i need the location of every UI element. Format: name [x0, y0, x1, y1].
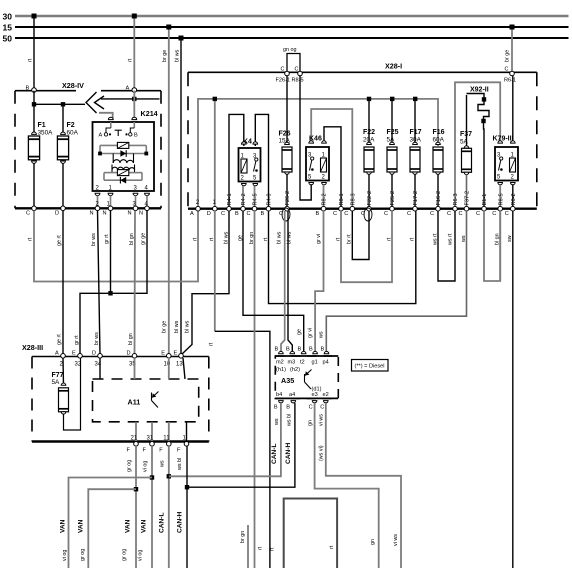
svg-text:B: B — [134, 133, 138, 139]
X28-III below labels — [127, 458, 184, 472]
svg-text:vi og: vi og — [62, 550, 68, 561]
svg-text:15: 15 — [3, 23, 13, 33]
svg-text:C: C — [221, 211, 225, 217]
fuse F26 15A — [279, 76, 293, 206]
svg-text:C: C — [430, 211, 434, 217]
fuse F1 350A — [28, 122, 53, 206]
extra gray wire bottom — [247, 525, 249, 568]
fuse F77 5A — [52, 358, 81, 430]
svg-text:5A: 5A — [460, 139, 469, 146]
svg-text:F16-2: F16-2 — [436, 191, 442, 206]
resistor row1 — [100, 144, 117, 146]
wire br gn R4-5 down — [255, 211, 264, 568]
svg-text:gn og: gn og — [283, 47, 297, 53]
X28-III bottom terminals — [127, 436, 189, 454]
resistor row4 — [104, 172, 117, 174]
svg-text:bl ws: bl ws — [276, 231, 282, 244]
wire rt from bus30 to X28-IV B — [28, 14, 37, 91]
terminal C R8-3 — [344, 193, 356, 217]
svg-text:R4-5: R4-5 — [253, 193, 259, 205]
wire gn from A35 e3 — [315, 403, 379, 568]
svg-text:gr og: gr og — [127, 460, 133, 472]
svg-text:rt: rt — [208, 342, 214, 346]
svg-text:B: B — [298, 347, 302, 353]
svg-text:A: A — [55, 351, 59, 357]
internal wire arrows to A and K214 — [99, 91, 160, 120]
terminal B top — [26, 86, 37, 93]
bus 50 — [3, 34, 569, 44]
svg-text:F26-1: F26-1 — [276, 78, 291, 84]
svg-text:ws bl: ws bl — [177, 458, 183, 471]
A35 top pins — [275, 347, 329, 366]
jumper R8-1 to F25-2 — [341, 211, 392, 282]
X92-II connector label — [470, 87, 489, 94]
svg-text:bl ws: bl ws — [223, 231, 229, 244]
svg-text:vi ws: vi ws — [393, 534, 399, 546]
svg-text:ws rt: ws rt — [447, 233, 453, 246]
svg-text:X28-III: X28-III — [22, 343, 43, 352]
X28-III upper wire labels — [57, 320, 191, 345]
svg-text:F2: F2 — [67, 122, 75, 129]
svg-text:b4: b4 — [276, 392, 282, 398]
A35 bottom pins — [274, 392, 329, 411]
svg-text:R6-2: R6-2 — [511, 193, 517, 205]
svg-text:C: C — [476, 211, 480, 217]
wire br gn label bottom — [240, 531, 246, 543]
svg-text:B: B — [261, 211, 265, 217]
svg-text:(h2): (h2) — [290, 367, 300, 373]
svg-text:VAN: VAN — [59, 519, 66, 533]
connector X28-IV box — [15, 81, 161, 208]
connector X28-I box — [188, 62, 537, 209]
wire br ws X28-IV N to X28-III D34 — [98, 211, 101, 355]
wire R8-5 from top to K46 pin5 — [300, 76, 311, 200]
svg-text:F: F — [159, 448, 163, 454]
svg-text:B: B — [316, 211, 320, 217]
relay K79-III — [493, 136, 519, 207]
svg-text:C: C — [320, 405, 324, 411]
svg-text:X28-IV: X28-IV — [62, 81, 84, 90]
svg-text:gn: gn — [370, 539, 376, 545]
relay K46 — [306, 136, 329, 207]
fuse F2 60A — [57, 122, 78, 206]
svg-text:B: B — [275, 347, 279, 353]
svg-text:D: D — [55, 211, 59, 217]
svg-text:ge rt: ge rt — [57, 334, 63, 345]
svg-text:ws bl: ws bl — [286, 414, 292, 427]
terminal A 2 — [190, 200, 200, 217]
wire bl ws from bus50 to X28-III E13 — [174, 36, 183, 355]
svg-text:vi ws: vi ws — [318, 414, 324, 426]
svg-text:br ge: br ge — [162, 50, 168, 62]
svg-text:B: B — [274, 405, 278, 411]
svg-text:(ws vi): (ws vi) — [318, 445, 324, 461]
svg-text:CAN-L: CAN-L — [158, 512, 165, 533]
jumper R8-3 to F22-2 — [352, 211, 369, 260]
svg-text:bl ws: bl ws — [286, 231, 292, 244]
svg-text:F25-2: F25-2 — [390, 191, 396, 206]
svg-text:D: D — [127, 351, 131, 357]
wire rt R4-3 to F17-2 — [269, 211, 416, 304]
svg-text:F: F — [177, 448, 181, 454]
svg-text:gr rt: gr rt — [74, 335, 80, 345]
svg-text:m2: m2 — [276, 360, 284, 366]
svg-text:R8-3: R8-3 — [351, 193, 357, 205]
svg-text:R6-1: R6-1 — [504, 78, 516, 84]
terminal B R4-2 — [235, 193, 247, 217]
page arrows symbol — [86, 92, 104, 113]
svg-text:br ge: br ge — [162, 321, 168, 333]
A35 arrow symbol — [304, 374, 306, 382]
terminal C F37-2 — [459, 191, 471, 217]
X28-IV bottom terminals — [26, 206, 149, 217]
svg-text:30: 30 — [3, 12, 13, 22]
svg-text:A: A — [126, 86, 130, 92]
svg-text:B: B — [26, 86, 30, 92]
svg-text:bl ws: bl ws — [174, 49, 180, 62]
wire br ge from bus15 to X28-I R6-1 — [504, 25, 516, 84]
control unit A35 box — [275, 356, 338, 398]
svg-text:B: B — [286, 347, 290, 353]
terminal C F25-2 — [384, 191, 396, 217]
svg-text:CAN-H: CAN-H — [285, 443, 292, 464]
wire ws F37-2 to A35 p4 — [318, 211, 466, 353]
bottom center box — [284, 499, 337, 568]
svg-text:R8-2: R8-2 — [322, 193, 328, 205]
svg-text:p4: p4 — [323, 360, 329, 366]
svg-text:bl ws: bl ws — [184, 320, 190, 333]
relay K214 — [93, 109, 158, 208]
terminal D 1 — [207, 200, 217, 217]
terminal B R4-3 — [261, 193, 273, 217]
control unit A11 dashed box — [93, 379, 199, 422]
wire VAN gr og down — [77, 446, 138, 568]
svg-text:gr vi: gr vi — [316, 234, 322, 244]
svg-text:ge: ge — [297, 329, 303, 335]
svg-text:13: 13 — [176, 362, 183, 368]
wire rt D1 long path down — [208, 211, 275, 568]
svg-text:C: C — [309, 405, 313, 411]
svg-text:34: 34 — [95, 362, 102, 368]
svg-text:F26: F26 — [279, 131, 291, 138]
K46 bridges — [311, 109, 352, 206]
diode row5 — [104, 179, 142, 181]
svg-text:D: D — [92, 351, 96, 357]
svg-text:rt: rt — [258, 546, 264, 550]
svg-text:g1: g1 — [312, 360, 318, 366]
svg-text:R4-3: R4-3 — [267, 193, 273, 205]
svg-text:F37-2: F37-2 — [465, 191, 471, 206]
svg-text:K79-III: K79-III — [493, 136, 514, 143]
svg-text:br gn: br gn — [240, 531, 246, 543]
wire bl ws F26-2 to A35 m2 m3 — [281, 211, 292, 353]
svg-text:rt: rt — [128, 58, 134, 62]
svg-text:gr og: gr og — [122, 549, 128, 561]
switch contacts — [110, 122, 112, 128]
svg-text:R4-1: R4-1 — [227, 193, 233, 205]
A11 arrow symbol — [151, 393, 153, 401]
terminal B R8-2 — [316, 193, 328, 217]
X28-I below-edge wire labels — [192, 231, 513, 246]
svg-text:R6-3: R6-3 — [453, 193, 459, 205]
svg-text:ws: ws — [274, 418, 280, 426]
terminal C F16-2 — [430, 191, 442, 217]
bottom pin bumps — [95, 193, 100, 195]
relay K4 — [239, 139, 261, 207]
svg-text:E: E — [161, 351, 165, 357]
svg-text:R8-5: R8-5 — [292, 78, 304, 84]
svg-text:e3: e3 — [312, 392, 318, 398]
jumper F16-2 to R6-3 — [438, 211, 455, 281]
terminal C R4-5 — [247, 193, 259, 217]
svg-text:bl ws: bl ws — [174, 320, 180, 333]
svg-text:A: A — [190, 211, 194, 217]
wire CAN-H — [176, 403, 295, 568]
svg-text:t2: t2 — [300, 360, 305, 366]
svg-text:br ws: br ws — [94, 332, 100, 345]
svg-text:R6-5: R6-5 — [498, 193, 504, 205]
svg-text:gn: gn — [308, 420, 314, 426]
svg-text:X92-II: X92-II — [470, 87, 489, 94]
svg-text:11: 11 — [163, 436, 170, 442]
X28-IV below-edge wire labels — [27, 233, 146, 246]
X28-III top terminals — [55, 351, 183, 368]
terminal C R6-3 — [447, 193, 459, 217]
svg-text:D: D — [207, 211, 211, 217]
terminal C R8-1 — [333, 193, 345, 217]
fuse F37 5A — [460, 131, 472, 206]
svg-text:F17-2: F17-2 — [413, 191, 419, 206]
svg-text:C: C — [247, 211, 251, 217]
svg-text:C: C — [384, 211, 388, 217]
svg-text:E: E — [72, 351, 76, 357]
terminal C R6-5 — [492, 193, 504, 217]
svg-text:gr ge: gr ge — [140, 233, 146, 245]
svg-text:e2: e2 — [323, 392, 329, 398]
svg-text:bl gn: bl gn — [128, 333, 134, 345]
svg-text:gr rt: gr rt — [104, 234, 110, 244]
terminal C F22-2 — [361, 191, 373, 221]
wire CAN-L — [158, 403, 281, 568]
svg-text:ge rt: ge rt — [56, 235, 62, 246]
svg-text:R4-2: R4-2 — [241, 193, 247, 205]
svg-text:N: N — [103, 211, 107, 217]
svg-text:N: N — [128, 211, 132, 217]
svg-text:R8-1: R8-1 — [339, 193, 345, 205]
svg-text:rt: rt — [329, 545, 335, 549]
wire ge rt X28-IV D to X28-III A2 — [62, 211, 64, 355]
K4 bridges — [229, 114, 269, 206]
svg-text:rt: rt — [28, 58, 34, 62]
svg-text:B1-1: B1-1 — [482, 194, 488, 206]
svg-text:VAN: VAN — [77, 519, 84, 533]
svg-text:5A: 5A — [52, 379, 61, 386]
svg-text:31: 31 — [147, 436, 154, 442]
svg-text:F: F — [127, 448, 131, 454]
svg-text:C: C — [459, 211, 463, 217]
svg-text:A11: A11 — [128, 398, 141, 407]
svg-text:K214: K214 — [141, 109, 158, 118]
wire bl ws R4-1 jog to X28-III E13 — [182, 211, 230, 355]
svg-text:(**) = Diesel: (**) = Diesel — [355, 364, 385, 370]
A11 top stubs — [100, 358, 185, 379]
svg-text:VAN: VAN — [125, 519, 132, 533]
svg-text:X28-I: X28-I — [385, 62, 402, 71]
terminal C F26-2 — [279, 191, 291, 221]
svg-text:CAN-H: CAN-H — [176, 512, 183, 533]
fuse F17 30A — [410, 99, 422, 206]
svg-text:gr og: gr og — [80, 549, 86, 561]
svg-text:br ws: br ws — [91, 233, 97, 246]
svg-text:F1: F1 — [38, 122, 46, 129]
svg-text:C: C — [447, 211, 451, 217]
svg-text:C: C — [333, 211, 337, 217]
svg-text:vi og: vi og — [138, 550, 144, 561]
wire br ge from bus15 to X28-III E10 — [162, 25, 171, 355]
svg-text:21: 21 — [131, 436, 138, 442]
svg-text:N: N — [139, 211, 143, 217]
svg-text:C: C — [26, 211, 30, 217]
fuse F25 5A — [387, 99, 399, 206]
svg-text:br ge: br ge — [505, 50, 511, 62]
svg-text:rt: rt — [192, 237, 198, 241]
svg-text:C: C — [492, 211, 496, 217]
wire bl gn X28-IV N to X28-III D35 — [134, 211, 137, 355]
bus 30 — [3, 12, 569, 22]
wire ge R4-2 to A35 t2 — [243, 211, 304, 353]
svg-text:A: A — [99, 133, 103, 139]
svg-text:B: B — [235, 211, 239, 217]
svg-text:bl gn: bl gn — [129, 233, 135, 245]
X28-I top terminal circles — [285, 71, 515, 76]
svg-text:10: 10 — [164, 362, 171, 368]
svg-text:a4: a4 — [289, 392, 295, 398]
coil rows — [112, 154, 114, 164]
wire bl gn R6-5 stub — [499, 211, 501, 281]
svg-text:N: N — [90, 211, 94, 217]
diode row2 — [100, 153, 146, 155]
internal gray bus — [198, 97, 438, 206]
terminal C B1-1 — [476, 194, 488, 217]
svg-text:m3: m3 — [288, 360, 296, 366]
wire R6-1 to K79 pin1 — [512, 76, 514, 143]
wire vi ws from A35 e2 — [326, 403, 401, 568]
terminal A top — [126, 86, 137, 93]
wire rt from bus30 to X28-IV A — [128, 14, 137, 91]
svg-text:F: F — [143, 448, 147, 454]
wire sw R6-2 down — [512, 211, 514, 568]
svg-text:C: C — [407, 211, 411, 217]
terminal C F17-2 — [407, 191, 419, 217]
diesel note box — [352, 360, 389, 372]
fuse F22 20A — [363, 99, 375, 206]
svg-text:F22-2: F22-2 — [367, 191, 373, 206]
jumper B1-1 to R6-5 — [484, 211, 500, 281]
A35 below labels — [274, 414, 324, 461]
svg-text:rt: rt — [409, 237, 415, 241]
svg-text:A35: A35 — [281, 376, 294, 385]
svg-text:ws: ws — [318, 331, 324, 339]
wire VAN vi og down — [59, 446, 154, 568]
svg-text:ws: ws — [160, 460, 166, 468]
svg-text:rt: rt — [270, 547, 276, 551]
svg-text:F37: F37 — [460, 131, 472, 138]
svg-text:50: 50 — [3, 34, 13, 44]
terminal C R4-1 — [221, 193, 233, 217]
internal wire to F1 F2 — [32, 91, 85, 135]
wire gr rt jog to X28-III E32 — [80, 211, 147, 355]
svg-text:VAN: VAN — [141, 519, 148, 533]
A11 bottom stubs — [136, 422, 187, 442]
svg-text:CAN-L: CAN-L — [271, 443, 278, 464]
svg-text:C: C — [505, 211, 509, 217]
wire rt X28-IV C to X28-I A2 — [34, 211, 198, 282]
fuse F16 60A — [433, 129, 445, 206]
wire gr vi R8-2 to A35 g1 — [308, 211, 324, 353]
svg-text:B: B — [286, 405, 290, 411]
svg-text:F77: F77 — [52, 372, 64, 379]
wire F37 to B1-1 through X92-II zigzag — [467, 94, 490, 207]
svg-text:E: E — [174, 351, 178, 357]
wire gn og bridge F26-1 to R8-5 — [276, 47, 304, 84]
R6-3 gray bridge — [455, 82, 500, 206]
svg-text:rt: rt — [27, 237, 33, 241]
terminal C R6-2 — [505, 193, 517, 217]
svg-text:vi og: vi og — [143, 461, 149, 472]
svg-text:B: B — [321, 347, 325, 353]
svg-text:gr vi: gr vi — [308, 328, 314, 338]
svg-text:(h1): (h1) — [276, 367, 286, 373]
bus 15 — [3, 23, 569, 33]
svg-text:C: C — [344, 211, 348, 217]
svg-text:B: B — [309, 347, 313, 353]
svg-text:F26-2: F26-2 — [285, 191, 291, 206]
svg-text:F16: F16 — [433, 129, 445, 136]
connector X28-III box — [22, 343, 209, 442]
